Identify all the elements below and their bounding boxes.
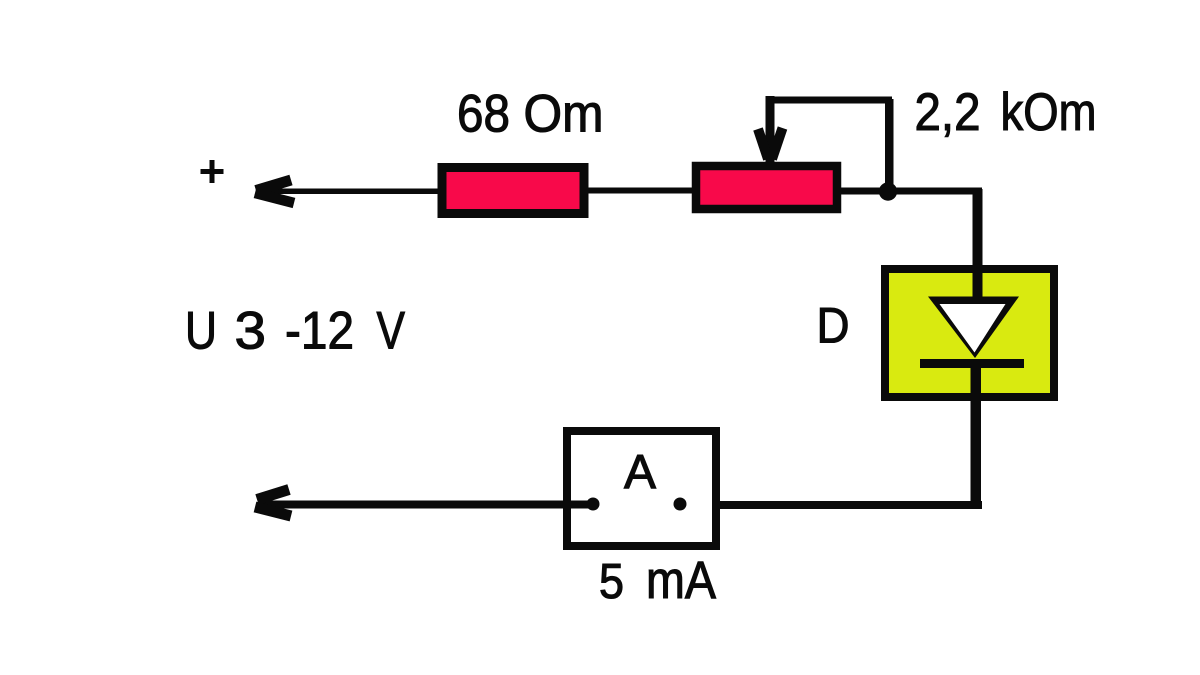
- svg-text:5: 5: [599, 555, 624, 609]
- node arrow top-left: [256, 180, 291, 191]
- svg-text:D: D: [817, 298, 850, 354]
- svg-text:mA: mA: [646, 551, 717, 610]
- wire top-left horizontal: [256, 189, 444, 195]
- wire wiper loop right vertical: [885, 99, 894, 192]
- wire bottom horizontal left segment: [258, 501, 593, 509]
- wiper arrow of R2: [766, 96, 775, 162]
- svg-text:kOm: kOm: [1001, 83, 1097, 142]
- wire vertical below diode: [971, 364, 982, 509]
- resistor R1 68 Om: [442, 168, 584, 214]
- ammeter terminal dots: [587, 498, 600, 511]
- wire wiper loop top: [766, 97, 892, 104]
- wire between R1 and R2: [584, 188, 696, 194]
- wire vertical into diode box: [973, 189, 983, 301]
- resistor R2 potentiometer 2,2 kOm: [696, 166, 837, 209]
- node arrow bottom-left: [257, 490, 289, 500]
- wire R2 to corner: [837, 188, 982, 195]
- svg-text:A: A: [624, 446, 656, 499]
- svg-text:Om: Om: [524, 85, 604, 144]
- svg-text:-12: -12: [285, 302, 354, 361]
- diode triangle anode: [928, 297, 1019, 359]
- svg-text:68: 68: [457, 85, 510, 144]
- junction node dot: [879, 182, 897, 200]
- wire bottom horizontal right segment: [680, 501, 982, 509]
- svg-text:3: 3: [235, 302, 267, 361]
- diode cathode bar: [920, 359, 1024, 368]
- svg-text:U: U: [185, 302, 217, 361]
- svg-text:2,2: 2,2: [915, 83, 981, 142]
- ammeter A box: [567, 431, 716, 546]
- svg-text:V: V: [377, 302, 406, 361]
- diode D box: [885, 269, 1054, 397]
- node plus terminal label: [201, 160, 224, 183]
